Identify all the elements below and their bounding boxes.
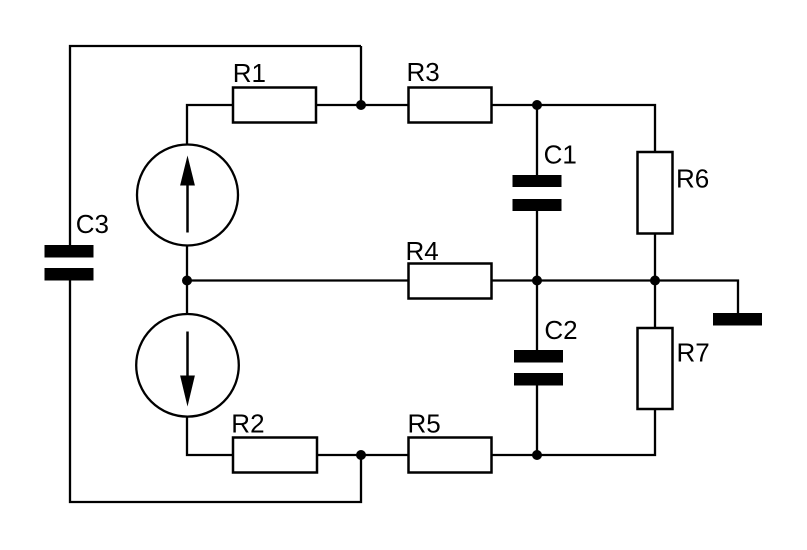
- ground: [713, 313, 762, 326]
- svg-text:C2: C2: [544, 315, 577, 345]
- wire current source I1 top to R1 left: [187, 105, 233, 144]
- wire node D to current source I2 top: [186, 281, 188, 315]
- wire R5 right through node G to R7 bottom: [492, 409, 656, 455]
- wire current source I1 bottom to node D: [186, 246, 188, 281]
- capacitor C2: [514, 315, 578, 386]
- wire R3 right to R6 top through node C: [492, 105, 656, 152]
- node G junction: [532, 450, 542, 460]
- node D junction: [182, 276, 192, 286]
- current source I1: [137, 145, 238, 246]
- svg-text:R5: R5: [408, 409, 441, 439]
- resistor R2: [231, 409, 317, 473]
- capacitor C1: [513, 140, 577, 212]
- wire C2 bottom to node G: [536, 385, 538, 455]
- wire node D to R4 left: [187, 279, 409, 281]
- node B junction: [356, 450, 366, 460]
- wire R6 bottom to node F: [654, 233, 656, 281]
- wire R2 right to R5 left through node B: [317, 454, 409, 456]
- resistor R4: [406, 236, 492, 299]
- wire current source I2 bottom to R2 left: [187, 417, 233, 455]
- node C junction: [532, 100, 542, 110]
- svg-text:R3: R3: [407, 57, 440, 87]
- resistor R1: [233, 58, 316, 123]
- resistor R6: [638, 152, 710, 234]
- wire C2 top from node E: [536, 281, 538, 351]
- resistor R5: [408, 409, 492, 473]
- node F junction: [650, 276, 660, 286]
- wire top rail and left rail down to C3: [70, 46, 361, 246]
- current source I2: [136, 314, 239, 417]
- resistor R3: [407, 57, 492, 123]
- node A junction: [356, 100, 366, 110]
- svg-text:C3: C3: [76, 209, 109, 239]
- svg-text:R4: R4: [406, 236, 439, 266]
- wire R4 right through node E and node F to ground stub: [492, 281, 739, 315]
- wire from C3 bottom down, along bottom rail, up to node B: [70, 279, 361, 502]
- svg-text:R7: R7: [677, 338, 710, 368]
- wire R1 right to R3 left through node A: [316, 104, 409, 106]
- wire C1 top from node C: [536, 105, 538, 175]
- wire node F to R7 top: [654, 281, 656, 329]
- svg-text:R1: R1: [233, 58, 266, 88]
- resistor R7: [638, 328, 710, 409]
- wire C1 bottom to node E: [536, 211, 538, 281]
- wire riser from top rail to node A: [360, 46, 362, 105]
- node E junction: [532, 276, 542, 286]
- capacitor C3: [45, 209, 109, 281]
- svg-text:R6: R6: [676, 164, 709, 194]
- svg-text:C1: C1: [544, 140, 577, 170]
- svg-text:R2: R2: [231, 409, 264, 439]
